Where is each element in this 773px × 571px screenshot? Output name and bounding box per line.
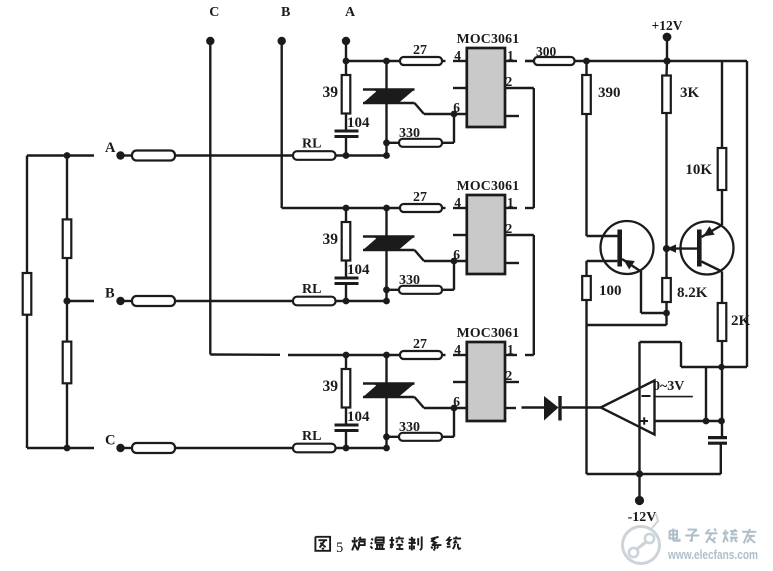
svg-text:104: 104 bbox=[347, 262, 370, 278]
svg-text:10K: 10K bbox=[685, 162, 712, 178]
svg-text:A: A bbox=[105, 140, 116, 156]
svg-text:2K: 2K bbox=[731, 313, 751, 329]
svg-text:39: 39 bbox=[323, 231, 339, 248]
svg-text:39: 39 bbox=[323, 84, 339, 101]
svg-text:www.elecfans.com: www.elecfans.com bbox=[667, 548, 758, 562]
svg-text:B: B bbox=[281, 5, 290, 20]
svg-text:2: 2 bbox=[506, 368, 513, 383]
svg-text:5: 5 bbox=[336, 540, 343, 556]
svg-text:C: C bbox=[105, 433, 115, 449]
svg-text:27: 27 bbox=[413, 190, 427, 205]
svg-text:2: 2 bbox=[506, 74, 513, 89]
svg-text:3K: 3K bbox=[680, 85, 700, 101]
svg-text:C: C bbox=[209, 5, 219, 20]
svg-text:6: 6 bbox=[453, 100, 460, 115]
svg-text:RL: RL bbox=[302, 429, 321, 444]
svg-text:+12V: +12V bbox=[652, 18, 683, 33]
svg-text:27: 27 bbox=[413, 337, 427, 352]
svg-text:4: 4 bbox=[454, 195, 461, 210]
svg-text:390: 390 bbox=[598, 85, 621, 101]
svg-text:4: 4 bbox=[454, 342, 461, 357]
svg-text:RL: RL bbox=[302, 137, 321, 152]
svg-text:MOC3061: MOC3061 bbox=[457, 178, 520, 193]
svg-text:MOC3061: MOC3061 bbox=[457, 325, 520, 340]
svg-text:100: 100 bbox=[599, 283, 622, 299]
svg-text:27: 27 bbox=[413, 43, 427, 58]
svg-text:-12V: -12V bbox=[628, 510, 657, 525]
svg-text:6: 6 bbox=[453, 394, 460, 409]
svg-text:2: 2 bbox=[506, 221, 513, 236]
svg-text:MOC3061: MOC3061 bbox=[457, 31, 520, 46]
svg-text:B: B bbox=[105, 286, 115, 302]
svg-text:104: 104 bbox=[347, 409, 370, 425]
svg-text:6: 6 bbox=[453, 247, 460, 262]
svg-text:RL: RL bbox=[302, 282, 321, 297]
svg-text:8.2K: 8.2K bbox=[677, 285, 708, 301]
svg-text:A: A bbox=[345, 5, 356, 20]
svg-text:39: 39 bbox=[323, 378, 339, 395]
svg-text:4: 4 bbox=[454, 48, 461, 63]
svg-text:0~3V: 0~3V bbox=[653, 379, 684, 394]
svg-text:104: 104 bbox=[347, 115, 370, 131]
